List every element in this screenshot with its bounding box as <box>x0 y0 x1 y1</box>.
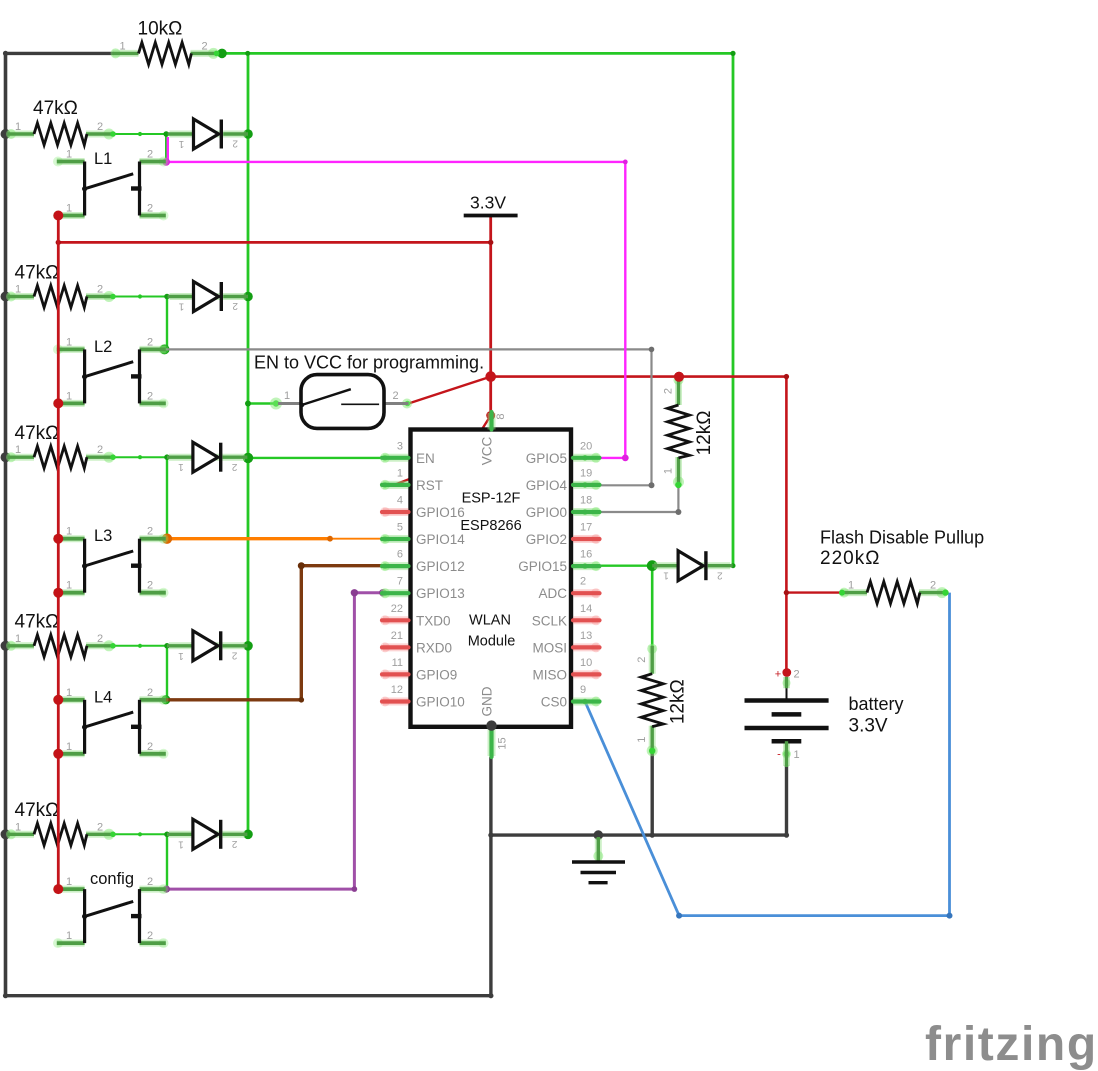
diode D6 <box>652 551 732 581</box>
svg-text:config: config <box>90 870 134 888</box>
svg-text:2: 2 <box>717 569 723 580</box>
svg-text:VCC: VCC <box>479 437 494 466</box>
wire red branch to 220k <box>786 591 842 593</box>
svg-text:4: 4 <box>397 495 403 507</box>
junction dots on left rail <box>1 129 11 139</box>
junction dots diode cathodes on rail <box>243 129 253 139</box>
svg-text:2: 2 <box>231 461 237 472</box>
svg-text:2: 2 <box>147 390 153 402</box>
svg-text:2: 2 <box>147 930 153 942</box>
svg-text:220kΩ: 220kΩ <box>820 548 880 569</box>
svg-text:1: 1 <box>397 467 403 479</box>
svg-text:GPIO10: GPIO10 <box>416 695 465 710</box>
svg-text:1: 1 <box>178 301 184 312</box>
svg-text:GPIO9: GPIO9 <box>416 667 457 682</box>
svg-text:GPIO13: GPIO13 <box>416 586 465 601</box>
wire magenta L1 pin2 to GPIO5 <box>168 137 626 458</box>
wire orange L3 pin2 to GPIO14 <box>167 537 331 540</box>
svg-text:GPIO0: GPIO0 <box>526 505 567 520</box>
pushbutton switch L3 <box>53 526 169 598</box>
svg-text:2: 2 <box>97 821 103 833</box>
svg-text:15: 15 <box>497 737 509 749</box>
svg-text:2: 2 <box>147 741 153 753</box>
svg-text:GPIO15: GPIO15 <box>518 559 567 574</box>
switch S1 EN-to-VCC programming <box>270 375 412 429</box>
wire dark-gray top segment to R1 <box>6 52 115 55</box>
svg-text:12: 12 <box>391 684 403 696</box>
svg-text:RST: RST <box>416 478 443 493</box>
svg-text:1: 1 <box>848 580 854 592</box>
wire red diagonal programming switch pin2 <box>409 377 491 404</box>
pin VCC (8) <box>488 413 496 430</box>
svg-text:1: 1 <box>636 737 648 743</box>
svg-text:3: 3 <box>397 440 403 452</box>
svg-text:ESP-12F: ESP-12F <box>462 491 521 507</box>
svg-text:GPIO16: GPIO16 <box>416 505 465 520</box>
svg-text:2: 2 <box>147 203 153 215</box>
wire purple config pin2 to GPIO13 <box>166 593 382 889</box>
wire dark-gray left rail <box>4 53 8 995</box>
svg-text:12kΩ: 12kΩ <box>668 679 689 724</box>
svg-text:GPIO5: GPIO5 <box>526 451 567 466</box>
wire dark-gray 12k R7 to ground bus <box>651 754 654 836</box>
svg-text:2: 2 <box>231 838 237 849</box>
wire dark-gray GND vertical <box>489 757 492 996</box>
svg-text:CS0: CS0 <box>541 695 567 710</box>
diode D2 <box>168 282 248 312</box>
pin GND (15) <box>488 727 496 756</box>
wire green R6 to diode D5 row link <box>113 833 193 835</box>
svg-text:21: 21 <box>391 630 403 642</box>
wire dark-gray battery minus to ground bus <box>785 765 788 835</box>
resistor R1 10k <box>111 19 220 65</box>
svg-text:EN to VCC for programming.: EN to VCC for programming. <box>254 353 484 373</box>
svg-text:1: 1 <box>66 580 72 592</box>
svg-text:1: 1 <box>66 876 72 888</box>
svg-text:7: 7 <box>397 576 403 588</box>
svg-text:13: 13 <box>580 630 592 642</box>
svg-text:47kΩ: 47kΩ <box>33 98 78 119</box>
svg-text:L3: L3 <box>94 527 112 545</box>
svg-text:GPIO4: GPIO4 <box>526 478 568 493</box>
red connection dots on switch pins <box>53 211 63 221</box>
svg-text:8: 8 <box>495 413 507 419</box>
svg-text:2: 2 <box>794 669 800 681</box>
junction dot 10k output <box>217 49 227 59</box>
battery BT1 3.3V <box>745 669 904 768</box>
svg-text:1: 1 <box>119 40 125 52</box>
wire green R5 to diode D4 row link <box>113 645 193 647</box>
svg-text:Flash Disable Pullup: Flash Disable Pullup <box>820 528 984 548</box>
resistor R9 220k <box>839 580 948 604</box>
svg-text:MOSI: MOSI <box>532 640 567 655</box>
wire green top horizontal <box>226 52 733 55</box>
svg-text:47kΩ: 47kΩ <box>15 423 60 444</box>
svg-text:2: 2 <box>97 284 103 296</box>
ground symbol <box>572 830 625 882</box>
wire red vertical switch common <box>57 216 60 890</box>
svg-text:2: 2 <box>663 388 675 394</box>
svg-text:1: 1 <box>66 687 72 699</box>
red junction dots <box>485 371 496 382</box>
wire red horizontal to battery + <box>491 375 787 378</box>
svg-text:2: 2 <box>232 138 238 149</box>
svg-text:TXD0: TXD0 <box>416 613 451 628</box>
wire red vertical to battery + <box>785 377 788 673</box>
wire green D6 junction down to 12k R7 <box>651 566 654 646</box>
wire green GPIO15 to D6 junction <box>588 565 652 567</box>
svg-text:WLAN: WLAN <box>469 613 511 629</box>
resistor R4 47k <box>6 423 115 468</box>
svg-text:GPIO2: GPIO2 <box>526 532 567 547</box>
svg-text:1: 1 <box>15 821 21 833</box>
wire green R3 to diode D2 row link <box>113 296 193 298</box>
svg-text:10: 10 <box>580 657 592 669</box>
svg-text:RXD0: RXD0 <box>416 640 452 655</box>
svg-text:1: 1 <box>663 468 675 474</box>
svg-text:1: 1 <box>178 461 184 472</box>
diode D1 <box>168 119 248 149</box>
wire gray L2 pin2 to GPIO4 <box>163 349 651 485</box>
svg-text:47kΩ: 47kΩ <box>15 612 60 633</box>
svg-text:22: 22 <box>391 603 403 615</box>
resistor R2 47k <box>6 98 115 145</box>
svg-text:9: 9 <box>580 684 586 696</box>
wire green right vertical (to D6) <box>732 53 735 565</box>
svg-text:Module: Module <box>468 633 516 649</box>
wire gray GPIO0 to 12k R6 <box>588 486 678 513</box>
svg-text:3.3V: 3.3V <box>470 193 506 213</box>
svg-text:GND: GND <box>479 686 494 716</box>
wire green vertical rail (diode cathodes / EN net) <box>247 53 250 834</box>
svg-text:1: 1 <box>66 336 72 348</box>
svg-text:1: 1 <box>663 570 669 581</box>
svg-text:2: 2 <box>636 657 648 663</box>
svg-text:18: 18 <box>580 495 592 507</box>
svg-text:2: 2 <box>231 649 237 660</box>
svg-text:L4: L4 <box>94 688 112 706</box>
wire green droppers to switch pins <box>165 134 167 162</box>
junction dot L4 pin2 <box>161 695 170 704</box>
resistor R5 47k <box>6 612 115 657</box>
svg-text:1: 1 <box>15 444 21 456</box>
svg-text:6: 6 <box>397 549 403 561</box>
resistor R6 12k <box>663 375 716 488</box>
svg-text:2: 2 <box>147 876 153 888</box>
pushbutton switch L1 <box>53 149 169 221</box>
svg-text:1: 1 <box>178 838 184 849</box>
svg-text:battery: battery <box>849 694 904 714</box>
svg-text:47kΩ: 47kΩ <box>15 800 60 821</box>
svg-text:2: 2 <box>930 580 936 592</box>
svg-text:2: 2 <box>97 444 103 456</box>
wire dark-gray ground bus horizontal <box>491 833 787 836</box>
wire red diagonal RST <box>395 416 491 485</box>
svg-text:1: 1 <box>794 749 800 761</box>
svg-text:1: 1 <box>178 138 184 149</box>
wire blue CS0 to 220k pin2 <box>585 593 950 916</box>
svg-text:GPIO12: GPIO12 <box>416 559 465 574</box>
svg-text:11: 11 <box>392 657 403 669</box>
svg-text:1: 1 <box>66 930 72 942</box>
svg-text:ESP8266: ESP8266 <box>460 518 521 534</box>
junction dot GPIO15/D6/12k <box>647 560 658 571</box>
svg-text:1: 1 <box>15 121 21 133</box>
pushbutton switch L4 <box>53 687 169 759</box>
svg-text:2: 2 <box>97 633 103 645</box>
resistor R7 12k <box>636 644 689 757</box>
svg-text:L1: L1 <box>94 150 112 168</box>
wire green R2 to diode D1 row link <box>113 133 193 135</box>
svg-text:1: 1 <box>284 390 290 402</box>
wire green R4 to diode D3 row link <box>113 456 193 458</box>
junction dot D6 cathode bend <box>731 563 736 568</box>
svg-text:1: 1 <box>66 203 72 215</box>
wire green link to programming switch pin1 <box>248 402 276 404</box>
svg-text:2: 2 <box>392 390 398 402</box>
wire brown L4 pin2 to GPIO12 <box>166 566 391 700</box>
svg-text:5: 5 <box>397 522 403 534</box>
pushbutton switch L2 <box>53 336 169 408</box>
junction dot L2 pin2 <box>160 344 170 354</box>
svg-text:2: 2 <box>147 687 153 699</box>
svg-text:+: + <box>775 669 781 681</box>
svg-text:2: 2 <box>147 336 153 348</box>
svg-text:EN: EN <box>416 451 435 466</box>
svg-text:16: 16 <box>580 549 592 561</box>
diode D3 <box>167 442 247 472</box>
svg-text:12kΩ: 12kΩ <box>694 411 715 456</box>
svg-text:2: 2 <box>147 580 153 592</box>
svg-text:1: 1 <box>66 741 72 753</box>
svg-text:2: 2 <box>580 576 586 588</box>
svg-text:L2: L2 <box>94 338 112 356</box>
svg-text:1: 1 <box>178 650 184 661</box>
svg-text:20: 20 <box>580 440 592 452</box>
wire green EN horizontal <box>248 457 388 459</box>
IC U1 ESP-12F ESP8266 WLAN module <box>380 412 601 757</box>
svg-text:10kΩ: 10kΩ <box>138 19 183 40</box>
power symbol 3.3V <box>464 193 518 216</box>
svg-text:GPIO14: GPIO14 <box>416 532 465 547</box>
wire red horizontal to 3.3V <box>58 241 490 244</box>
resistor R3 47k <box>6 263 115 308</box>
svg-text:-: - <box>777 749 781 761</box>
svg-text:1: 1 <box>66 149 72 161</box>
svg-text:1: 1 <box>66 390 72 402</box>
svg-text:1: 1 <box>66 526 72 538</box>
wire red 3.3V vertical to VCC <box>489 217 492 416</box>
svg-text:2: 2 <box>201 40 207 52</box>
svg-text:14: 14 <box>580 603 592 615</box>
svg-text:17: 17 <box>580 522 592 534</box>
svg-text:3.3V: 3.3V <box>849 715 888 736</box>
svg-text:fritzing: fritzing <box>925 1018 1098 1071</box>
svg-text:SCLK: SCLK <box>532 613 567 628</box>
diode D4 <box>167 631 247 661</box>
svg-text:1: 1 <box>15 633 21 645</box>
svg-text:2: 2 <box>232 300 238 311</box>
wire dark-gray bottom rail <box>6 994 491 997</box>
bright green wire-endpoint dots <box>675 482 681 488</box>
junction dots diode anodes <box>163 131 169 137</box>
pushbutton switch S config <box>53 870 169 948</box>
svg-text:MISO: MISO <box>532 667 567 682</box>
svg-text:2: 2 <box>97 121 103 133</box>
svg-text:ADC: ADC <box>538 586 567 601</box>
diode D5 <box>167 819 247 849</box>
svg-text:47kΩ: 47kΩ <box>15 263 60 284</box>
resistor R8 47k <box>6 800 115 845</box>
svg-text:19: 19 <box>580 467 592 479</box>
svg-text:1: 1 <box>15 284 21 296</box>
svg-text:2: 2 <box>147 149 153 161</box>
svg-text:2: 2 <box>147 526 153 538</box>
